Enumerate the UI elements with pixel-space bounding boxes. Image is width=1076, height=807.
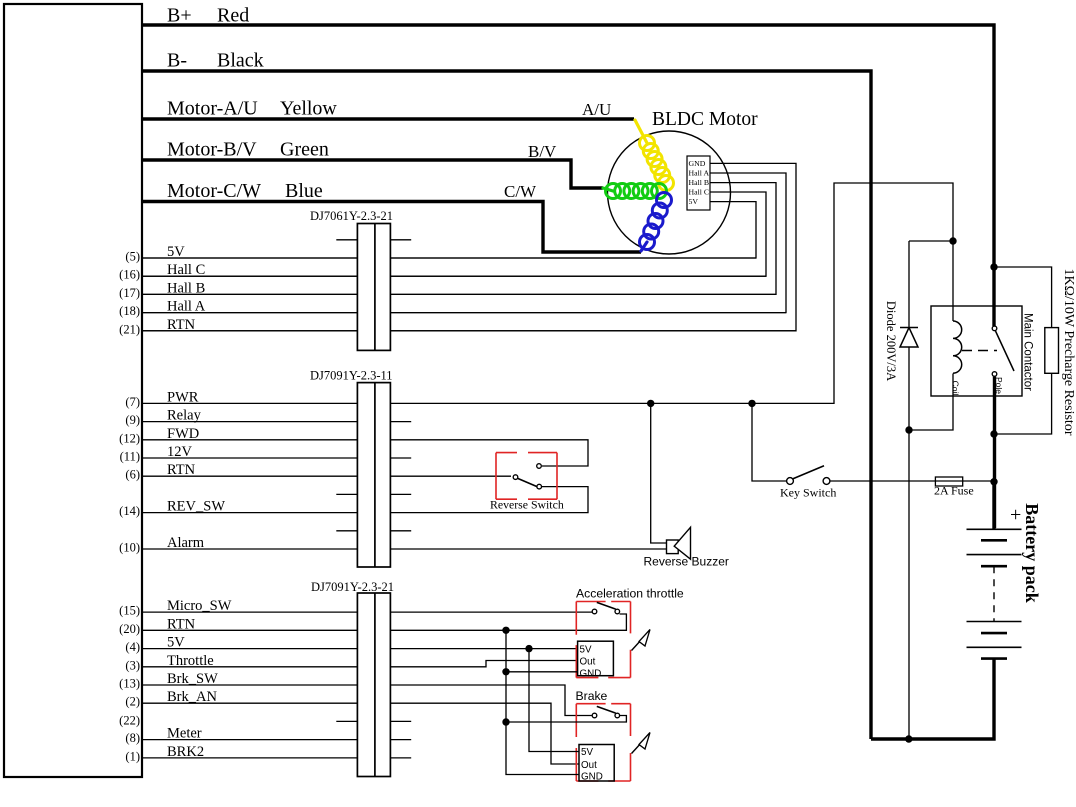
pin 8 Meter wire [142, 739, 357, 741]
battery pack cells [967, 528, 1022, 530]
wire B- [142, 71, 871, 739]
wire B+ [142, 25, 994, 326]
reverse switch lower contact [537, 484, 542, 489]
svg-text:A/U: A/U [582, 100, 611, 119]
reverse switch blade [518, 478, 537, 486]
svg-text:(22): (22) [119, 713, 140, 727]
svg-text:5V: 5V [167, 635, 185, 651]
svg-text:Red: Red [217, 5, 249, 27]
acceleration throttle red box [576, 602, 630, 678]
svg-text:Motor-C/W: Motor-C/W [167, 180, 261, 202]
svg-text:Diode 200V/3A: Diode 200V/3A [884, 301, 898, 381]
svg-text:FWD: FWD [167, 426, 199, 442]
wire 5V vertical to brake 5V [529, 649, 579, 752]
svg-text:Alarm: Alarm [167, 535, 205, 551]
svg-text:Hall A: Hall A [689, 169, 710, 178]
svg-text:(13): (13) [119, 677, 140, 691]
diode D1 200V/3A [900, 328, 918, 348]
svg-text:(4): (4) [125, 640, 140, 654]
reverse switch common contact [513, 475, 518, 480]
brake red box [576, 704, 630, 781]
svg-text:1KΩ/10W Precharge Resistor: 1KΩ/10W Precharge Resistor [1061, 269, 1076, 436]
reverse buzzer [667, 540, 679, 554]
svg-text:12V: 12V [167, 444, 193, 460]
svg-text:(9): (9) [125, 413, 140, 427]
pin 12 FWD wire [142, 440, 588, 466]
svg-text:(5): (5) [125, 250, 140, 264]
svg-text:(8): (8) [125, 731, 140, 745]
battery dashed middle [993, 566, 995, 621]
pin 16 Hall C wire [142, 275, 766, 277]
svg-text:Yellow: Yellow [280, 98, 337, 120]
svg-text:DJ7091Y-2.3-11: DJ7091Y-2.3-11 [310, 369, 393, 383]
svg-text:Battery pack: Battery pack [1022, 503, 1042, 602]
svg-text:+: + [1010, 504, 1021, 526]
svg-text:Brk_SW: Brk_SW [167, 671, 218, 687]
wire key switch to fuse [830, 480, 936, 482]
svg-text:Green: Green [280, 139, 329, 161]
svg-text:Out: Out [580, 657, 596, 668]
svg-text:5V: 5V [689, 197, 699, 206]
svg-text:5V: 5V [167, 244, 185, 260]
svg-text:(15): (15) [119, 604, 140, 618]
svg-text:Reverse Buzzer: Reverse Buzzer [644, 555, 729, 569]
contactor coil [953, 321, 962, 373]
junction dots [647, 400, 654, 407]
wire coil top branch [909, 241, 953, 327]
wire hall Hall A [142, 173, 786, 313]
svg-text:(1): (1) [125, 749, 140, 763]
svg-text:Reverse Switch: Reverse Switch [490, 498, 564, 512]
brake switch right contact [615, 713, 620, 718]
key switch left contact [787, 478, 794, 485]
wire battery negative lead [871, 659, 994, 739]
svg-text:B/V: B/V [528, 142, 557, 161]
svg-text:GND: GND [580, 668, 602, 679]
svg-text:Motor-B/V: Motor-B/V [167, 139, 257, 161]
wire coil bottom to diode [909, 374, 953, 431]
connector 2 key pin stubs [336, 493, 411, 495]
contactor dashed link [962, 350, 997, 352]
BLDC motor circle [608, 131, 731, 254]
svg-text:RTN: RTN [167, 616, 196, 632]
wire hall Hall C [142, 192, 766, 276]
svg-text:Throttle: Throttle [167, 653, 214, 669]
contactor fixed contact [992, 326, 997, 331]
svg-text:C/W: C/W [504, 182, 537, 201]
pin 22 stubs [336, 720, 411, 722]
brake sensor box [579, 745, 614, 782]
svg-text:Hall B: Hall B [167, 280, 205, 296]
pin 3 Throttle wire [142, 661, 578, 667]
svg-text:5V: 5V [580, 644, 592, 655]
pin 9 right stub [390, 421, 411, 423]
svg-text:(14): (14) [119, 504, 140, 518]
connector 2 key pin stubs 2 [336, 530, 411, 532]
pin 17 Hall B wire [142, 293, 776, 295]
contactor blade [996, 331, 1015, 371]
motor phase coil C (blue) [641, 242, 647, 251]
svg-text:GND: GND [581, 772, 603, 783]
pin 4 5V wire [142, 648, 578, 650]
svg-text:(7): (7) [125, 395, 140, 409]
pin 1 BRK2 wire [142, 757, 357, 759]
pin 13 Brk_SW wire [142, 685, 592, 716]
wire pole down [993, 377, 996, 528]
svg-text:(2): (2) [125, 695, 140, 709]
pin 6 RTN wire [142, 475, 511, 477]
svg-text:PWR: PWR [167, 389, 199, 405]
svg-text:(21): (21) [119, 322, 140, 336]
pin 14 REV_SW wire [142, 487, 588, 513]
svg-text:RTN: RTN [167, 317, 196, 333]
svg-text:Motor-A/U: Motor-A/U [167, 98, 258, 120]
throttle micro switch right contact [615, 609, 620, 614]
wire PWR to key switch [752, 403, 787, 481]
svg-text:Relay: Relay [167, 408, 202, 424]
pin 1 right stub [390, 757, 411, 759]
svg-text:(18): (18) [119, 304, 140, 318]
svg-text:(10): (10) [119, 541, 140, 555]
wire hall 5V [142, 202, 756, 258]
svg-text:Hall B: Hall B [689, 178, 710, 187]
svg-text:DJ7091Y-2.3-21: DJ7091Y-2.3-21 [311, 580, 394, 594]
wire hall Hall B [142, 183, 776, 295]
throttle micro switch left contact [592, 609, 597, 614]
hall sensor box [687, 156, 710, 210]
svg-text:(17): (17) [119, 286, 140, 300]
svg-text:BRK2: BRK2 [167, 744, 204, 760]
key switch right contact [823, 478, 830, 485]
svg-text:B+: B+ [167, 5, 192, 27]
svg-text:(6): (6) [125, 468, 140, 482]
svg-text:(11): (11) [120, 450, 140, 464]
throttle micro switch blade [597, 602, 616, 609]
precharge resistor [1045, 328, 1059, 374]
pin 11 12V wire [142, 457, 357, 459]
svg-text:Out: Out [581, 760, 597, 771]
svg-text:Hall A: Hall A [167, 299, 206, 315]
contactor pole contact [992, 372, 997, 377]
pin 9 Relay wire [142, 421, 357, 423]
svg-text:BLDC Motor: BLDC Motor [652, 109, 758, 130]
pin 10 Alarm wire [142, 548, 667, 550]
brake lever icon [632, 743, 642, 754]
svg-text:Black: Black [217, 50, 264, 72]
svg-text:Coil: Coil [950, 381, 960, 396]
motor phase coil A (yellow) [635, 120, 647, 143]
reverse switch upper contact [537, 464, 542, 469]
svg-text:(16): (16) [119, 268, 140, 282]
svg-text:DJ7061Y-2.3-21: DJ7061Y-2.3-21 [310, 209, 393, 223]
wire hall GND [142, 163, 796, 330]
reverse switch red box [496, 453, 557, 500]
throttle lever icon [632, 640, 642, 651]
controller box [4, 4, 142, 777]
svg-text:GND: GND [689, 159, 706, 168]
svg-text:Main Contactor: Main Contactor [1022, 313, 1034, 391]
pin 7 PWR wire [142, 183, 953, 403]
wire Motor-C/W [142, 202, 641, 253]
key switch blade [793, 466, 824, 479]
svg-text:B-: B- [167, 50, 187, 72]
wire RTN branch to throttle GND [506, 671, 578, 673]
wire battery positive lead [992, 482, 995, 530]
pin 5 5V wire [142, 257, 756, 259]
pin 15 Micro_SW wire [142, 611, 592, 613]
svg-text:REV_SW: REV_SW [167, 499, 225, 515]
svg-text:(20): (20) [119, 622, 140, 636]
svg-text:Blue: Blue [285, 180, 323, 202]
brake switch left contact [592, 713, 597, 718]
wire precharge branch top [994, 267, 1052, 328]
fuse 2A [935, 477, 962, 486]
svg-text:5V: 5V [581, 747, 593, 758]
svg-text:Brake: Brake [576, 689, 608, 703]
wire RTN vertical to GND [506, 630, 579, 774]
motor phase coil B (green) [603, 188, 613, 191]
wire precharge branch bottom [994, 373, 1052, 434]
svg-text:Key Switch: Key Switch [780, 486, 836, 500]
pin 20 RTN wire [142, 614, 626, 630]
main contactor box [931, 306, 1022, 396]
pin 8 right stub [390, 739, 411, 741]
wire Motor-B/V [142, 160, 603, 188]
throttle sensor box [578, 641, 614, 676]
svg-text:Meter: Meter [167, 726, 202, 742]
svg-text:Acceleration throttle: Acceleration throttle [576, 587, 684, 601]
pin 18 Hall A wire [142, 312, 786, 314]
svg-text:Micro_SW: Micro_SW [167, 598, 232, 614]
pin 11 right stub [390, 457, 411, 459]
connector 1 key pin stubs [336, 239, 411, 241]
pin 21 RTN wire [142, 330, 796, 332]
svg-text:Hall C: Hall C [689, 188, 710, 197]
svg-text:(12): (12) [119, 431, 140, 445]
wire Motor-A/U [142, 117, 634, 120]
svg-text:Brk_AN: Brk_AN [167, 689, 217, 705]
svg-text:RTN: RTN [167, 462, 196, 478]
svg-text:(3): (3) [125, 658, 140, 672]
wire brake switch to RTN vertical [506, 716, 626, 723]
pin 2 Brk_AN wire [142, 703, 579, 764]
svg-text:Hall C: Hall C [167, 262, 205, 278]
brake switch blade [597, 706, 616, 713]
wire PWR branch to buzzer [651, 403, 667, 543]
svg-text:2A Fuse: 2A Fuse [934, 484, 974, 498]
